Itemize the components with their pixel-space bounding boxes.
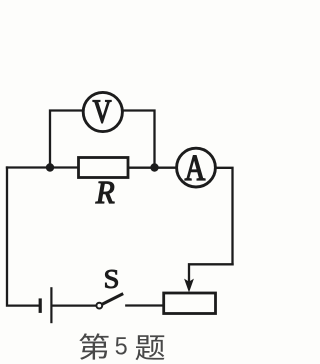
wire: switch pivot to battery	[52, 304, 96, 306]
ammeter A1 circle	[177, 148, 216, 187]
switch S blade	[102, 294, 124, 305]
ammeter label A	[185, 156, 205, 180]
switch pivot circle	[96, 303, 102, 309]
wire: jog left then down to rheostat slider	[189, 264, 233, 283]
wire: left rail to resistor R	[7, 166, 79, 168]
wire: ammeter right, down right rail	[215, 168, 232, 264]
wire: resistor R to ammeter	[128, 167, 177, 169]
switch label S	[105, 270, 117, 288]
voltmeter V1 circle	[83, 92, 122, 131]
wire: battery left to rail, up left rail	[7, 168, 39, 306]
junction node A (left of R)	[46, 163, 54, 171]
wire: node A up and over to voltmeter	[50, 111, 83, 168]
caption character 第	[79, 333, 108, 359]
caption digit 5	[116, 337, 127, 354]
resistor label R (italic)	[96, 182, 114, 203]
resistor R box	[79, 158, 129, 178]
rheostat box	[164, 293, 216, 314]
wire: rheostat to switch	[126, 304, 163, 306]
battery short thick plate	[39, 298, 42, 313]
rheostat slider arrowhead	[184, 279, 194, 293]
caption character 题	[135, 335, 164, 360]
battery long plate	[50, 287, 52, 323]
voltmeter label V	[93, 100, 111, 122]
wire: voltmeter right to corner, down to node B	[122, 111, 154, 168]
junction node B (right of R)	[150, 163, 158, 171]
